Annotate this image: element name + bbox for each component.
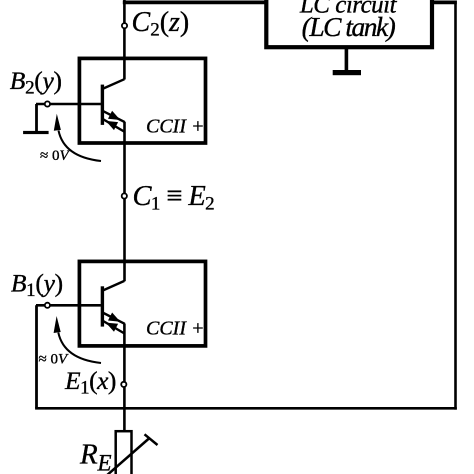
svg-text:E1(x): E1(x) — [64, 366, 116, 399]
resistor RE body — [116, 431, 132, 474]
transistor Q2 base bar — [101, 85, 104, 125]
wire right vertical — [454, 1, 457, 410]
svg-text:E: E — [97, 451, 112, 474]
arrow arc upper — [59, 131, 102, 162]
ground under LC box : stub — [345, 49, 349, 71]
ground at B2 — [23, 131, 48, 134]
wire main vertical middle (emitter Q2 to collector Q1) — [123, 122, 126, 281]
svg-text:B2(y): B2(y) — [10, 66, 62, 99]
svg-text:C2(z): C2(z) — [132, 7, 190, 41]
node B2 — [45, 101, 50, 106]
arrowhead upper — [54, 114, 61, 131]
ground under LC box : bar — [333, 70, 361, 75]
op-amp block U1 CCII+ (lower box) — [79, 261, 205, 346]
arrow arc lower — [58, 333, 101, 364]
wire bottom horizontal — [35, 407, 457, 410]
transistor Q2 collector line — [103, 79, 125, 89]
transistor Q1 collector line — [103, 281, 125, 291]
transistor Q2 emitter line B — [103, 119, 125, 132]
node E1 — [121, 382, 126, 387]
transistor Q2 arrow on line A — [108, 111, 120, 120]
wire top horizontal right segment — [432, 1, 457, 5]
transistor Q1 arrow on line B — [106, 323, 118, 332]
transistor Q2 emitter line A — [103, 111, 125, 122]
wire main vertical lower (emitter Q1 to resistor RE) — [123, 324, 126, 432]
wire B2 horizontal — [36, 103, 101, 106]
transistor Q2 arrow on line B — [106, 121, 118, 130]
node C2 — [122, 23, 127, 28]
op-amp block U2 CCII+ (upper box) — [79, 58, 205, 143]
svg-text:(LC tank): (LC tank) — [302, 11, 396, 42]
svg-text:R: R — [79, 439, 98, 471]
svg-text:≈ 0V: ≈ 0V — [39, 351, 69, 367]
wire B1 horizontal — [36, 304, 101, 307]
resistor RE adjust diagonal — [106, 438, 150, 474]
node B1 — [45, 303, 50, 308]
transistor Q1 emitter line A — [103, 313, 125, 324]
wire main vertical upper (collector of Q2 to top) — [123, 0, 126, 80]
svg-text:B1(y): B1(y) — [11, 269, 63, 302]
wire B2 ground drop — [35, 104, 38, 131]
svg-text:C1 ≡ E2: C1 ≡ E2 — [133, 181, 215, 215]
wire top horizontal left segment — [123, 1, 267, 5]
svg-text:CCII +: CCII + — [146, 115, 205, 137]
transistor Q1 arrow on line A — [108, 313, 120, 322]
svg-text:≈ 0V: ≈ 0V — [40, 148, 70, 164]
wire B1 left drop to bottom wire — [35, 305, 38, 408]
arrowhead lower — [54, 316, 61, 333]
resistor RE adjust tick — [145, 434, 158, 445]
transistor Q1 emitter line B — [103, 321, 125, 334]
svg-text:CCII +: CCII + — [146, 317, 205, 339]
transistor Q1 base bar — [101, 286, 104, 326]
node C1E2 — [122, 193, 127, 198]
LC circuit box — [266, 0, 432, 47]
